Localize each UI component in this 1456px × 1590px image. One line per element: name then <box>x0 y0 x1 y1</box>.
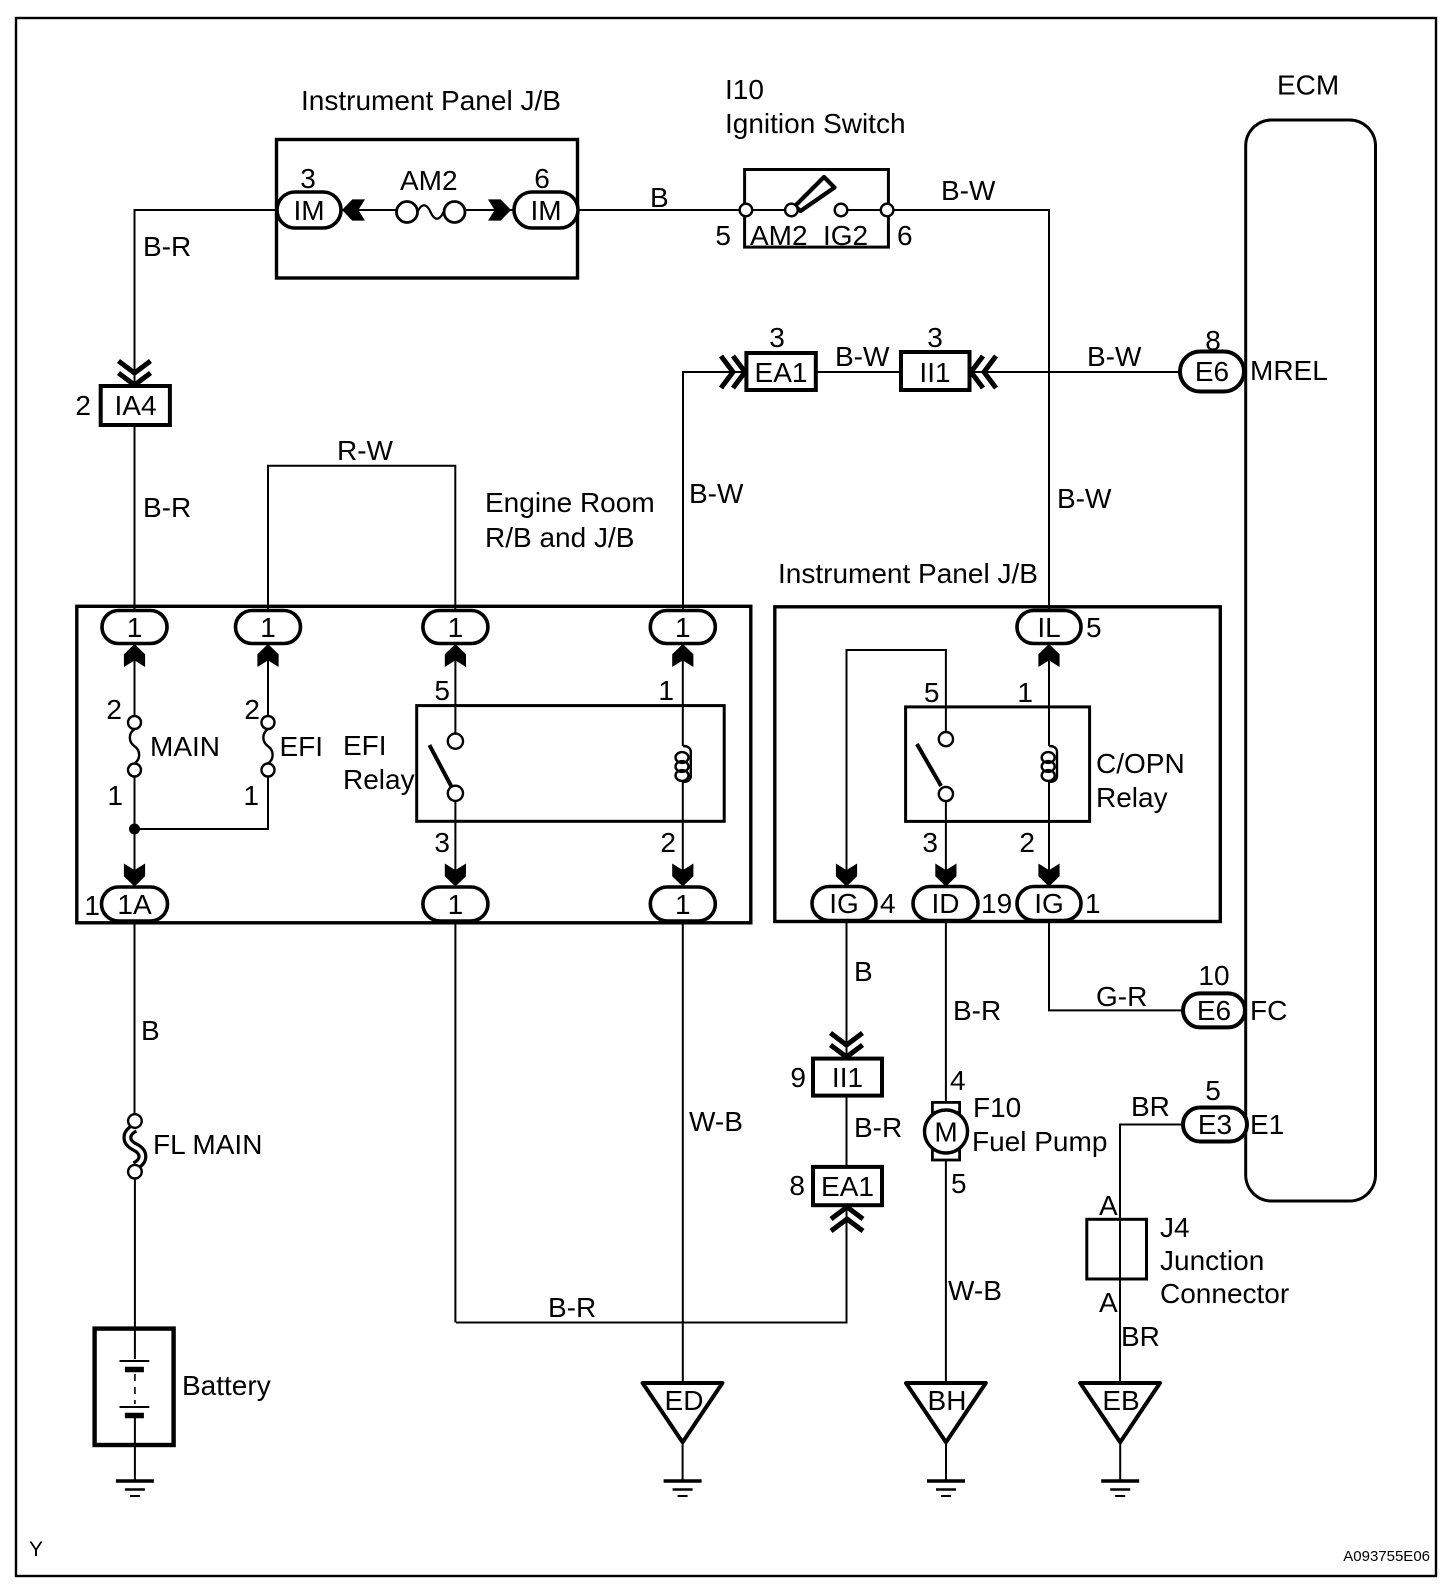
label J4 Junction Connector <box>1160 1212 1289 1309</box>
label W-B (col4) <box>689 1106 743 1137</box>
svg-text:B: B <box>141 1015 160 1046</box>
pin number 3 <box>300 163 316 194</box>
wire B-R from EA1 down-left-up to engine room col3 <box>455 921 846 1323</box>
svg-text:BR: BR <box>1121 1321 1160 1352</box>
svg-text:Connector: Connector <box>1160 1278 1289 1309</box>
pin number 19 <box>981 888 1012 919</box>
pin number 6 (ignition) <box>897 220 913 251</box>
wire II1 to E6 MREL <box>970 371 1181 373</box>
svg-text:II1: II1 <box>919 357 950 388</box>
label B-W (col4) <box>689 478 744 509</box>
C/OPN relay coil <box>1042 746 1057 782</box>
svg-text:IG: IG <box>1034 888 1064 919</box>
terminal 6 circle <box>881 204 894 217</box>
svg-text:G-R: G-R <box>1096 981 1147 1012</box>
connector IL oval <box>1017 611 1081 644</box>
svg-text:10: 10 <box>1198 960 1229 991</box>
svg-text:E3: E3 <box>1198 1109 1232 1140</box>
Instrument Panel J/B (top) label <box>301 85 561 116</box>
label W-B (fuel col) <box>948 1275 1002 1306</box>
wire FL MAIN to battery <box>134 1179 136 1360</box>
svg-text:Relay: Relay <box>343 764 415 795</box>
wire EA1 to II1 <box>816 371 901 373</box>
svg-text:ED: ED <box>665 1385 704 1416</box>
wire II1 to EA1 (B-R) <box>846 1096 848 1167</box>
label G-R <box>1096 981 1147 1012</box>
label B-R (bottom run) <box>548 1292 596 1323</box>
label BR (E3 row) <box>1131 1091 1170 1122</box>
terminal 5 circle <box>740 204 753 217</box>
wire B from IM pin 6 to ignition switch <box>578 209 740 211</box>
Engine Room R/B and J/B label <box>485 487 655 553</box>
svg-text:3: 3 <box>927 322 943 353</box>
svg-text:3: 3 <box>922 827 938 858</box>
svg-text:6: 6 <box>897 220 913 251</box>
battery box <box>95 1329 174 1445</box>
arrow up into col4 oval <box>672 644 693 667</box>
label A (below J4) <box>1099 1287 1118 1318</box>
connector E3 oval <box>1183 1108 1247 1142</box>
svg-text:1: 1 <box>243 780 259 811</box>
arrow up into col3 oval <box>445 644 466 667</box>
pin 1 (C/OPN relay) <box>1017 677 1033 708</box>
pin number 5 (fuel pump) <box>951 1168 967 1199</box>
Engine Room R/B and J/B box <box>77 606 751 923</box>
connector 1 oval (col3 bottom) <box>423 887 488 921</box>
ECM label <box>1277 70 1339 101</box>
wire W-B fuel pump to BH ground <box>945 1160 947 1383</box>
svg-text:EB: EB <box>1102 1385 1139 1416</box>
label B-W (vertical to IL) <box>1057 483 1112 514</box>
fusible link FL MAIN <box>127 1114 142 1178</box>
label Battery <box>182 1370 271 1401</box>
connector EA1 (bottom) <box>813 1167 882 1205</box>
label B-R (fuel col) <box>953 995 1001 1026</box>
ground triangle EB <box>1080 1383 1160 1442</box>
I10 Ignition Switch label <box>725 74 906 139</box>
pin number 9 <box>790 1062 806 1093</box>
wire col2 oval to EFI fuse <box>267 644 269 717</box>
svg-text:A: A <box>1099 1287 1118 1318</box>
svg-text:A: A <box>1099 1190 1118 1221</box>
svg-text:3: 3 <box>300 163 316 194</box>
svg-text:Ignition Switch: Ignition Switch <box>725 108 906 139</box>
wire B from IG4 down to II1 <box>846 921 848 1059</box>
pin 2 (MAIN) <box>106 694 122 725</box>
arrow up into IL oval <box>1038 644 1059 667</box>
svg-text:2: 2 <box>75 390 91 421</box>
svg-text:Relay: Relay <box>1096 782 1168 813</box>
pin number 5 (ignition) <box>715 220 731 251</box>
fuse AM2 <box>397 202 466 223</box>
pin number 4 (fuel pump) <box>950 1065 966 1096</box>
label B-R (col1) <box>143 492 191 523</box>
svg-text:Junction: Junction <box>1160 1245 1264 1276</box>
connector II1 (bottom) <box>813 1059 882 1096</box>
wire inside switch <box>752 209 785 211</box>
wire below EB <box>1119 1442 1121 1481</box>
label A093755E06 <box>1343 1548 1430 1565</box>
svg-text:1: 1 <box>448 889 464 920</box>
wire col1 oval to MAIN fuse <box>134 644 136 717</box>
connector 1 oval (col4 bottom) <box>650 887 715 921</box>
svg-text:AM2: AM2 <box>400 165 458 196</box>
svg-text:Battery: Battery <box>182 1370 271 1401</box>
pin 2 (EFI) <box>244 694 260 725</box>
ground triangle BH <box>906 1383 986 1442</box>
svg-text:Y: Y <box>29 1538 43 1561</box>
svg-text:8: 8 <box>1205 325 1221 356</box>
connector IG oval (pin4) <box>812 887 876 921</box>
svg-text:1: 1 <box>675 612 691 643</box>
label AM2 (fuse) <box>400 165 458 196</box>
wire G-R from IG1 to E6 FC <box>1049 921 1183 1011</box>
label Y <box>29 1538 43 1561</box>
arrow up into col1 oval <box>124 644 145 667</box>
svg-text:B-R: B-R <box>953 995 1001 1026</box>
svg-text:4: 4 <box>950 1065 966 1096</box>
wire B from 1A to FL MAIN <box>134 921 136 1115</box>
svg-text:5: 5 <box>1205 1075 1221 1106</box>
svg-text:1: 1 <box>260 612 276 643</box>
connector IM pin 3 oval <box>277 192 341 228</box>
wire below ED <box>682 1442 684 1481</box>
label MREL <box>1250 355 1328 386</box>
svg-text:3: 3 <box>434 827 450 858</box>
chevrons into IA4 <box>119 361 151 385</box>
svg-text:IA4: IA4 <box>114 390 156 421</box>
connector 1 oval (col3 top) <box>423 611 488 644</box>
svg-text:FL MAIN: FL MAIN <box>153 1129 262 1160</box>
connector 1 oval (col1 top) <box>102 611 167 644</box>
Instrument Panel J/B (right) label <box>778 558 1038 589</box>
svg-text:IM: IM <box>293 195 324 226</box>
connector 1A oval <box>102 887 168 921</box>
pin number 1 <box>1085 888 1101 919</box>
svg-text:1A: 1A <box>117 889 152 920</box>
ground symbol (battery) <box>116 1481 154 1496</box>
svg-text:B-W: B-W <box>835 341 890 372</box>
svg-text:E6: E6 <box>1197 995 1231 1026</box>
svg-text:A093755E06: A093755E06 <box>1343 1548 1430 1565</box>
pin number 8 <box>789 1170 805 1201</box>
wire B-W from ignition pin 6 down to IL <box>893 210 1049 611</box>
pin number 8 above E6 <box>1205 325 1221 356</box>
label FC <box>1250 995 1287 1026</box>
arrow into IM pin 3 <box>342 199 365 220</box>
svg-text:B-W: B-W <box>941 175 996 206</box>
wire col4 oval into relay coil <box>682 644 684 746</box>
svg-text:IL: IL <box>1037 612 1060 643</box>
svg-text:5: 5 <box>715 220 731 251</box>
svg-text:1: 1 <box>1017 677 1033 708</box>
svg-text:EA1: EA1 <box>755 357 808 388</box>
svg-text:II1: II1 <box>832 1062 863 1093</box>
svg-text:2: 2 <box>660 827 676 858</box>
wire W-B col4 to ED ground <box>682 921 684 1383</box>
arrow into IM pin 6 <box>488 199 511 220</box>
ignition switch lever <box>795 177 835 211</box>
svg-text:AM2: AM2 <box>750 220 808 251</box>
node junction dot <box>129 824 140 835</box>
wire EFI fuse down and left to junction <box>135 777 269 830</box>
svg-text:1: 1 <box>1085 888 1101 919</box>
ground triangle ED <box>643 1383 723 1442</box>
pin 5 (EFI relay) <box>434 675 450 706</box>
svg-text:2: 2 <box>106 694 122 725</box>
svg-text:Instrument Panel J/B: Instrument Panel J/B <box>301 85 561 116</box>
fuse EFI <box>262 716 275 777</box>
chevrons into II1 <box>971 356 996 388</box>
label B-W (ignition right) <box>941 175 996 206</box>
chevrons into II1 (bottom) <box>831 1033 863 1057</box>
ground symbol (ED) <box>664 1481 702 1496</box>
label B-W (to MREL) <box>1087 341 1142 372</box>
chevrons into EA1 <box>721 356 745 388</box>
svg-text:B-W: B-W <box>689 478 744 509</box>
svg-text:1: 1 <box>107 780 123 811</box>
wire BR from E3 to J4 and EB ground <box>1120 1125 1183 1384</box>
label B (IG4 col) <box>854 956 873 987</box>
svg-text:EFI: EFI <box>280 731 324 762</box>
connector 1 oval (col2 top) <box>236 611 301 644</box>
svg-text:8: 8 <box>789 1170 805 1201</box>
svg-text:F10: F10 <box>973 1092 1021 1123</box>
svg-text:MREL: MREL <box>1250 355 1328 386</box>
ignition switch I10 box <box>745 170 889 248</box>
connector E6 MREL oval <box>1180 352 1244 392</box>
connector II1 (top) <box>901 352 970 390</box>
svg-text:B-R: B-R <box>548 1292 596 1323</box>
wire col3 oval into relay <box>454 644 456 734</box>
label BR (below J4) <box>1121 1321 1160 1352</box>
label A (above J4) <box>1099 1190 1118 1221</box>
svg-text:B-R: B-R <box>143 492 191 523</box>
arrow down into 1A oval <box>124 864 145 887</box>
terminal IG2 circle <box>835 204 848 217</box>
wire C/OPN switch to ID oval <box>945 801 947 886</box>
svg-text:19: 19 <box>981 888 1012 919</box>
svg-text:C/OPN: C/OPN <box>1096 748 1185 779</box>
wire inside J/B to fuse AM2 <box>341 209 397 211</box>
pin 3 (EFI relay) <box>434 827 450 858</box>
pin number 5 (E3) <box>1205 1075 1221 1106</box>
pin 3 (C/OPN relay) <box>922 827 938 858</box>
svg-text:2: 2 <box>244 694 260 725</box>
fuse MAIN <box>128 716 141 777</box>
svg-text:B-R: B-R <box>854 1112 902 1143</box>
wire B-R from IM pin 3 left and down to IA4 <box>135 210 277 386</box>
svg-text:W-B: W-B <box>948 1275 1002 1306</box>
connector E6 FC oval <box>1183 993 1245 1027</box>
svg-text:FC: FC <box>1250 995 1287 1026</box>
wire fuse to IM pin 6 <box>465 209 514 211</box>
EFI relay switch contact <box>429 734 463 801</box>
svg-text:ECM: ECM <box>1277 70 1339 101</box>
label B-R (II1-EA1) <box>854 1112 902 1143</box>
svg-text:EFI: EFI <box>343 730 387 761</box>
svg-text:1: 1 <box>127 612 143 643</box>
svg-text:B-W: B-W <box>1057 483 1112 514</box>
wire relay switch to col3 bottom oval <box>454 801 456 886</box>
arrow down into IG4 oval <box>836 864 857 887</box>
wire MAIN fuse to junction <box>134 777 136 887</box>
ECM box <box>1246 120 1376 1201</box>
arrow down into ID oval <box>935 864 956 887</box>
C/OPN relay switch contact <box>917 732 953 801</box>
label B <box>650 182 669 213</box>
pin number 2 (IA4) <box>75 390 91 421</box>
svg-text:E1: E1 <box>1250 1109 1284 1140</box>
svg-text:IM: IM <box>530 195 561 226</box>
pin 1 (1A) <box>84 890 100 921</box>
svg-text:Engine Room: Engine Room <box>485 487 655 518</box>
svg-text:1: 1 <box>675 889 691 920</box>
connector 1 oval (col4 top) <box>650 611 715 644</box>
connector EA1 (top) <box>746 353 815 390</box>
connector ID oval <box>913 887 978 921</box>
pin number 5 (IL) <box>1086 612 1102 643</box>
svg-text:IG2: IG2 <box>823 220 868 251</box>
svg-text:B: B <box>650 182 669 213</box>
svg-text:ID: ID <box>932 888 960 919</box>
svg-text:E6: E6 <box>1195 356 1229 387</box>
label B (battery col) <box>141 1015 160 1046</box>
svg-text:R/B and J/B: R/B and J/B <box>485 522 634 553</box>
svg-text:MAIN: MAIN <box>150 731 220 762</box>
label MAIN <box>150 731 220 762</box>
label B-W (EA1-II1) <box>835 341 890 372</box>
svg-text:2: 2 <box>1019 827 1035 858</box>
terminal AM2 circle <box>785 204 798 217</box>
label AM2 (ignition) <box>750 220 808 251</box>
label E1 <box>1250 1109 1284 1140</box>
wire IL to C/OPN coil <box>1048 644 1050 746</box>
svg-text:4: 4 <box>880 888 896 919</box>
svg-text:5: 5 <box>1086 612 1102 643</box>
arrow down into IG1 oval <box>1038 864 1059 887</box>
wire coil to col4 bottom oval <box>682 782 684 886</box>
svg-text:1: 1 <box>84 890 100 921</box>
label IG2 (ignition) <box>823 220 868 251</box>
pin 1 (MAIN) <box>107 780 123 811</box>
svg-text:B-W: B-W <box>1087 341 1142 372</box>
svg-text:BR: BR <box>1131 1091 1170 1122</box>
svg-text:BH: BH <box>928 1385 967 1416</box>
label B-R (top left) <box>143 231 191 262</box>
connector IA4 box <box>101 386 170 425</box>
label EFI Relay <box>343 730 415 795</box>
pin 5 (C/OPN relay) <box>924 677 940 708</box>
svg-text:IG: IG <box>829 888 859 919</box>
wire below BH <box>945 1442 947 1481</box>
pin number 4 <box>880 888 896 919</box>
svg-text:B-R: B-R <box>143 231 191 262</box>
svg-text:5: 5 <box>951 1168 967 1199</box>
label F10 Fuel Pump <box>972 1092 1107 1157</box>
wire B-W vertical to engine room col4 <box>683 372 746 610</box>
battery cell symbol <box>120 1361 150 1481</box>
EFI relay box <box>417 706 725 822</box>
label EFI <box>280 731 324 762</box>
arrow down into col4 bottom oval <box>672 864 693 887</box>
wire IG branch up-over to C/OPN relay pin 5 <box>847 650 946 886</box>
connector IG oval (pin1) <box>1017 887 1081 921</box>
pin number 3 above EA1 <box>769 322 785 353</box>
pin 1 (EFI) <box>243 780 259 811</box>
chevrons into EA1 (bottom) <box>831 1207 863 1231</box>
EFI relay coil <box>676 746 691 782</box>
svg-text:J4: J4 <box>1160 1212 1190 1243</box>
svg-text:5: 5 <box>434 675 450 706</box>
svg-text:W-B: W-B <box>689 1106 743 1137</box>
ground symbol (EB) <box>1101 1481 1139 1496</box>
pin number 6 <box>534 163 550 194</box>
svg-text:1: 1 <box>448 612 464 643</box>
wire coil to IG1 oval <box>1048 782 1050 886</box>
svg-text:EA1: EA1 <box>821 1171 874 1202</box>
svg-text:Instrument Panel J/B: Instrument Panel J/B <box>778 558 1038 589</box>
label R-W <box>337 435 394 466</box>
svg-text:3: 3 <box>769 322 785 353</box>
pin number 10 (FC) <box>1198 960 1229 991</box>
wire B-R IA4 to engine room <box>134 426 136 612</box>
Instrument Panel J/B (top) box <box>277 140 578 279</box>
svg-text:B: B <box>854 956 873 987</box>
connector IM pin 6 oval <box>514 192 578 228</box>
arrow up into col2 oval <box>257 644 278 667</box>
motor F10 fuel pump <box>925 1102 968 1160</box>
label FL MAIN <box>153 1129 262 1160</box>
pin number 3 above II1 <box>927 322 943 353</box>
ground symbol (BH) <box>927 1481 965 1496</box>
svg-text:R-W: R-W <box>337 435 394 466</box>
svg-text:I10: I10 <box>725 74 764 105</box>
wire B-R from ID to fuel pump <box>945 921 947 1103</box>
pin 2 (C/OPN relay) <box>1019 827 1035 858</box>
Instrument Panel J/B (right) box <box>775 607 1221 922</box>
pin 1 (EFI relay) <box>658 675 674 706</box>
svg-text:6: 6 <box>534 163 550 194</box>
wire R-W loop <box>268 466 455 611</box>
C/OPN relay box <box>906 707 1090 822</box>
label C/OPN Relay <box>1096 748 1185 813</box>
J4 junction connector box <box>1087 1219 1147 1279</box>
svg-text:M: M <box>934 1117 957 1148</box>
pin 2 (EFI relay) <box>660 827 676 858</box>
arrow down into col3 bottom oval <box>445 864 466 887</box>
svg-text:1: 1 <box>658 675 674 706</box>
wire IG2 to pin 6 <box>847 209 881 211</box>
svg-text:5: 5 <box>924 677 940 708</box>
svg-text:Fuel Pump: Fuel Pump <box>972 1126 1107 1157</box>
svg-text:9: 9 <box>790 1062 806 1093</box>
